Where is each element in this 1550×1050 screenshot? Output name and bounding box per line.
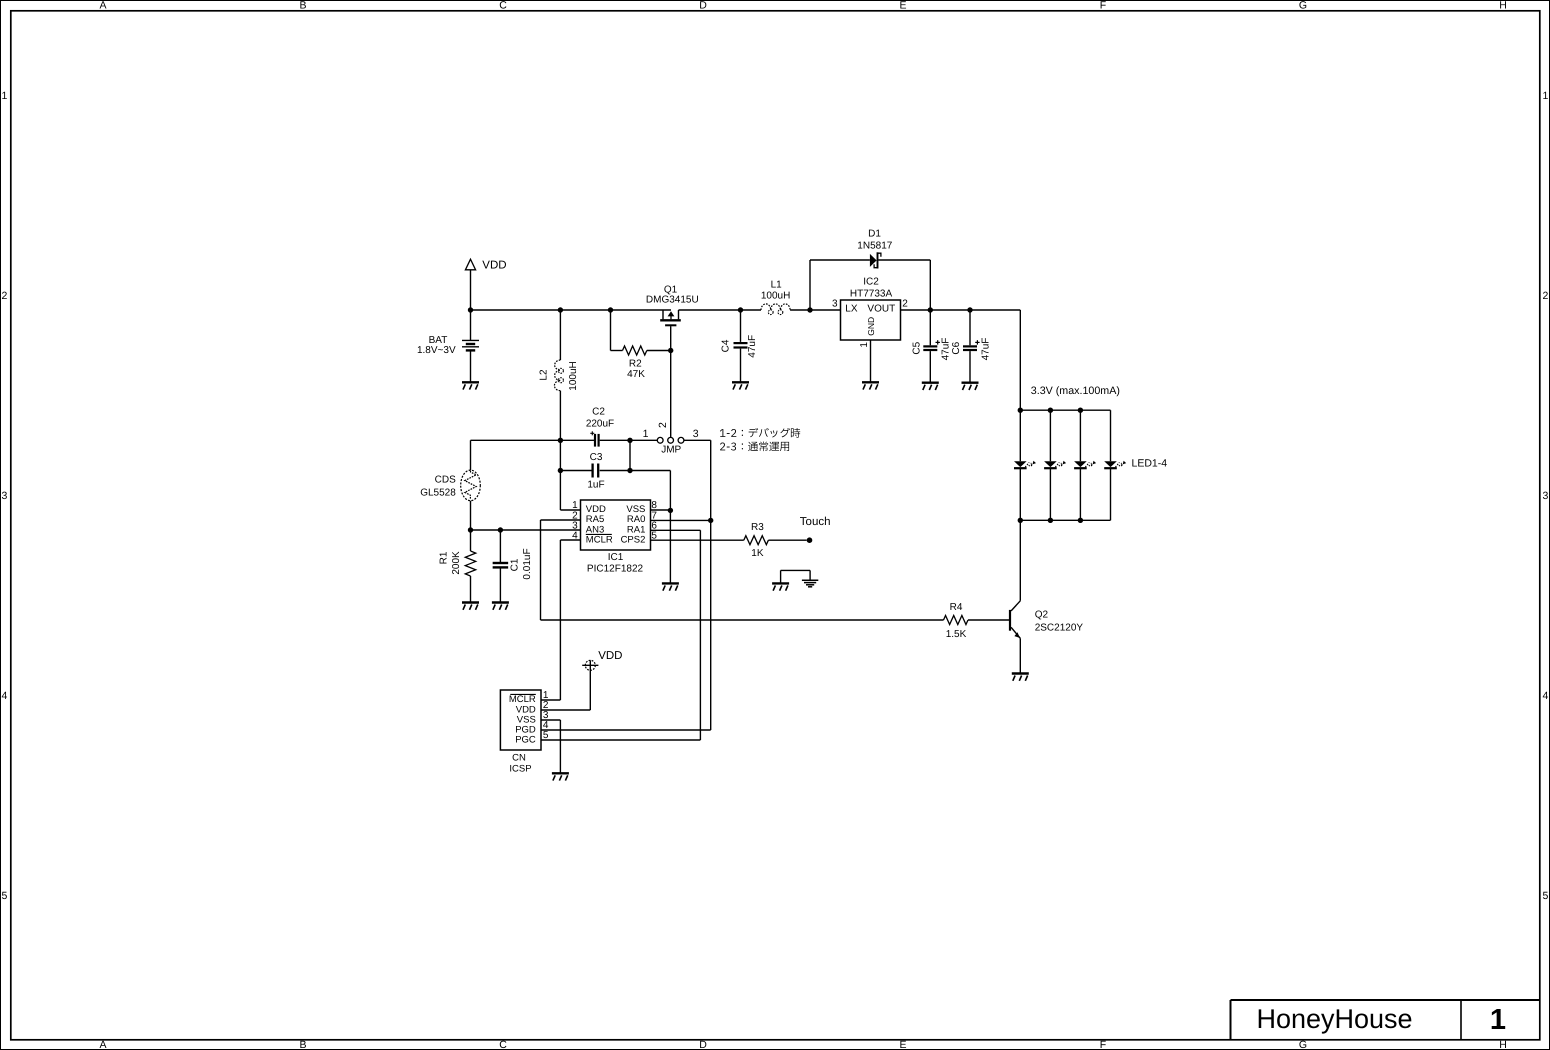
- svg-text:D: D: [699, 0, 707, 12]
- wire CPS2 pin5: [651, 539, 744, 541]
- earth ground (touch): [802, 579, 818, 581]
- wire C2-C3 link: [629, 440, 631, 470]
- ground (Q2): [1012, 672, 1029, 674]
- svg-text:C6: C6: [951, 341, 962, 354]
- inductor L2: [559, 310, 561, 360]
- svg-text:1N5817: 1N5817: [857, 241, 892, 252]
- transistor Q2 (NPN 2SC2120Y): [1009, 610, 1011, 631]
- ground (battery): [462, 381, 479, 383]
- svg-text:DMG3415U: DMG3415U: [646, 295, 699, 306]
- svg-text:47uF: 47uF: [941, 338, 952, 361]
- svg-text:100uH: 100uH: [761, 291, 790, 302]
- regulator IC2 HT7733A: [841, 300, 901, 340]
- svg-text:4: 4: [1, 690, 7, 702]
- svg-text:1: 1: [1542, 90, 1548, 102]
- svg-text:1: 1: [643, 428, 649, 440]
- svg-text:L1: L1: [771, 279, 783, 290]
- svg-text:IC1: IC1: [608, 552, 624, 563]
- ground (C6): [962, 382, 979, 384]
- svg-text:VDD: VDD: [598, 650, 622, 662]
- wire ICSP PGC pin5: [541, 739, 700, 741]
- svg-text:C2: C2: [592, 406, 605, 417]
- svg-text:47uF: 47uF: [980, 338, 991, 361]
- svg-text:5: 5: [1, 890, 7, 902]
- svg-text:MCLR: MCLR: [586, 535, 613, 546]
- capacitor C2: [560, 439, 594, 441]
- svg-text:2: 2: [1542, 290, 1548, 302]
- svg-text:2: 2: [1, 290, 7, 302]
- LED4: [1110, 410, 1112, 461]
- LED3: [1079, 410, 1081, 461]
- wire battery to rail: [470, 310, 472, 340]
- wire RA5 long run: [541, 619, 944, 621]
- svg-text:F: F: [1100, 0, 1106, 12]
- svg-text:R3: R3: [751, 522, 764, 533]
- svg-text:2SC2120Y: 2SC2120Y: [1035, 623, 1084, 634]
- capacitor C5: [929, 310, 931, 345]
- svg-text:VDD: VDD: [482, 259, 506, 271]
- wire VSS pin8: [651, 509, 671, 511]
- svg-text:200K: 200K: [451, 551, 462, 575]
- svg-text:2: 2: [902, 299, 908, 310]
- battery BAT: [462, 339, 479, 341]
- svg-text:PIC12F1822: PIC12F1822: [587, 564, 644, 575]
- svg-text:F: F: [1100, 1039, 1106, 1050]
- svg-text:1: 1: [1, 90, 7, 102]
- LED top bus: [1020, 409, 1110, 411]
- wire IC1 pin1 feed: [559, 440, 561, 510]
- resistor R3: [744, 536, 769, 545]
- wire ICSP PGD pin4: [541, 729, 711, 731]
- svg-text:1K: 1K: [751, 548, 764, 559]
- ground (C1): [492, 601, 509, 603]
- LED1: [1019, 410, 1021, 461]
- svg-text:HoneyHouse: HoneyHouse: [1256, 1004, 1412, 1034]
- svg-text:H: H: [1499, 1039, 1507, 1050]
- LED2: [1049, 410, 1051, 461]
- svg-text:LED1-4: LED1-4: [1132, 457, 1168, 469]
- wire rail right of Q1: [679, 309, 762, 311]
- svg-text:3: 3: [832, 299, 838, 310]
- mcu IC1 PIC12F1822: [581, 500, 651, 550]
- wire CDS top: [471, 439, 561, 441]
- svg-text:G: G: [1299, 1039, 1307, 1050]
- svg-text:B: B: [299, 0, 306, 12]
- ground (C5): [922, 382, 939, 384]
- wire VOUT rail: [901, 309, 1021, 311]
- svg-text:GL5528: GL5528: [420, 487, 456, 498]
- wire MCLR route: [560, 539, 580, 541]
- diode D1 (1N5817): [809, 260, 811, 310]
- ground (C4): [732, 381, 749, 383]
- jumper JMP: [630, 439, 657, 441]
- ground (ICSP): [552, 772, 569, 774]
- svg-text:1: 1: [1490, 1004, 1506, 1036]
- wire C3 to VSS: [630, 470, 670, 472]
- svg-text:H: H: [1499, 0, 1507, 12]
- svg-text:B: B: [299, 1039, 306, 1050]
- power symbol VDD (ICSP): [585, 660, 595, 670]
- svg-text:0.01uF: 0.01uF: [522, 548, 533, 579]
- svg-text:4: 4: [1542, 690, 1548, 702]
- svg-text:A: A: [99, 1039, 106, 1050]
- LED bottom bus: [1020, 519, 1110, 521]
- ground (IC1 VSS): [662, 582, 679, 584]
- svg-text:E: E: [899, 0, 906, 12]
- svg-text:JMP: JMP: [661, 444, 681, 455]
- node AN3 wire: [471, 529, 581, 531]
- ground (IC2): [862, 381, 879, 383]
- capacitor C6: [969, 310, 971, 345]
- svg-text:ICSP: ICSP: [509, 764, 531, 775]
- power symbol VDD (battery): [465, 259, 475, 270]
- svg-text:100uH: 100uH: [568, 361, 579, 390]
- inductor L1: [761, 304, 790, 310]
- svg-text:PGC: PGC: [515, 734, 536, 745]
- touch ground bracket: [780, 570, 782, 583]
- svg-text:5: 5: [1542, 890, 1548, 902]
- resistor R4: [944, 616, 969, 625]
- svg-text:D: D: [699, 1039, 707, 1050]
- wire ICSP VDD pin2: [541, 709, 590, 711]
- svg-text:HT7733A: HT7733A: [850, 288, 893, 299]
- svg-text:1.8V~3V: 1.8V~3V: [417, 345, 456, 356]
- svg-text:3: 3: [1542, 490, 1548, 502]
- ground (R1): [462, 601, 479, 603]
- svg-text:3: 3: [1, 490, 7, 502]
- svg-text:Touch: Touch: [800, 516, 831, 528]
- svg-text:C4: C4: [721, 339, 732, 352]
- svg-text:1.5K: 1.5K: [946, 629, 967, 640]
- title block: [1231, 999, 1541, 1001]
- connector CN ICSP: [500, 690, 541, 750]
- wire JMP3 down: [710, 440, 712, 730]
- wire ICSP VSS pin3: [541, 719, 560, 721]
- svg-text:VOUT: VOUT: [867, 304, 895, 315]
- svg-text:R1: R1: [439, 551, 450, 564]
- svg-text:1: 1: [859, 342, 870, 348]
- svg-text:47K: 47K: [627, 369, 645, 380]
- svg-text:C5: C5: [912, 341, 923, 354]
- svg-text:D1: D1: [868, 228, 881, 239]
- svg-text:GND: GND: [866, 317, 876, 336]
- svg-text:C: C: [499, 1039, 507, 1050]
- svg-text:IC2: IC2: [863, 276, 879, 287]
- photoresistor CDS GL5528: [461, 470, 481, 501]
- resistor R1: [470, 530, 472, 551]
- capacitor C1: [499, 530, 501, 563]
- note jumper usage (Japanese): [720, 428, 800, 438]
- svg-text:C: C: [499, 0, 507, 12]
- node Touch: [807, 537, 813, 543]
- wire RA5 to base line: [541, 519, 581, 521]
- svg-text:MCLR: MCLR: [509, 694, 536, 705]
- svg-text:L2: L2: [538, 369, 549, 381]
- svg-text:1uF: 1uF: [587, 480, 604, 491]
- svg-text:3.3V (max.100mA): 3.3V (max.100mA): [1031, 385, 1120, 397]
- svg-text:47uF: 47uF: [747, 335, 758, 358]
- svg-text:R4: R4: [950, 602, 963, 613]
- svg-text:Q2: Q2: [1035, 610, 1049, 621]
- capacitor C3: [560, 470, 591, 472]
- svg-text:E: E: [899, 1039, 906, 1050]
- svg-text:5: 5: [543, 730, 549, 741]
- junction gate-R2: [668, 348, 673, 353]
- svg-text:CPS2: CPS2: [621, 535, 646, 546]
- note line 2 (Japanese): [720, 442, 789, 452]
- svg-text:A: A: [99, 0, 106, 12]
- svg-text:220uF: 220uF: [586, 418, 614, 429]
- wire RA0 pin7: [651, 519, 711, 521]
- wire 3.3V drop: [1019, 310, 1021, 410]
- wire IC2 GND pin: [870, 340, 872, 382]
- svg-text:CDS: CDS: [435, 474, 456, 485]
- svg-text:CN: CN: [512, 753, 526, 764]
- capacitor C4: [740, 310, 742, 342]
- svg-text:2: 2: [657, 422, 669, 428]
- svg-text:C3: C3: [590, 452, 603, 463]
- node VDD rail: [471, 309, 672, 311]
- svg-text:G: G: [1299, 0, 1307, 12]
- svg-text:C1: C1: [510, 558, 521, 571]
- ground (touch): [772, 582, 789, 584]
- svg-text:3: 3: [693, 428, 699, 440]
- transistor Q1 (P-MOSFET): [662, 310, 664, 319]
- resistor R2: [610, 310, 612, 351]
- wire RA1 pin6: [651, 529, 701, 531]
- svg-text:LX: LX: [845, 304, 858, 315]
